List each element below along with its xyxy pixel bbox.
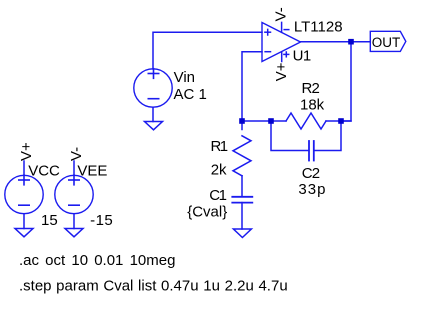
resistor R1 <box>233 136 251 176</box>
V3 minus mark <box>69 204 79 206</box>
wire VCC flag stub <box>23 161 25 175</box>
V2 plus mark <box>19 175 29 185</box>
op-amp -input mark <box>265 51 270 53</box>
svg-text:V+: V+ <box>18 142 35 161</box>
svg-text:{Cval}: {Cval} <box>187 204 227 221</box>
svg-text:C2: C2 <box>302 165 320 182</box>
svg-text:AC 1: AC 1 <box>174 86 207 103</box>
wire op-amp output to OUT flag <box>301 41 371 43</box>
voltage source V2 VCC circle <box>5 175 43 213</box>
svg-text:V-: V- <box>68 147 85 161</box>
ground under VEE <box>65 229 83 237</box>
svg-text:R1: R1 <box>211 138 228 155</box>
op-amp U1 triangle <box>262 23 301 62</box>
svg-text:15: 15 <box>41 212 58 229</box>
svg-text:C1: C1 <box>209 187 226 204</box>
svg-text:VCC: VCC <box>28 163 60 180</box>
svg-text:2k: 2k <box>211 162 227 179</box>
voltage source V3 VEE circle <box>55 175 93 213</box>
svg-text:LT1128: LT1128 <box>294 18 343 35</box>
svg-text:V-: V- <box>272 7 289 21</box>
wire Vin top to op-amp +input <box>153 32 262 69</box>
resistor R2 <box>286 113 326 129</box>
ground under VCC <box>15 229 33 237</box>
svg-text:OUT: OUT <box>372 35 401 50</box>
op-amp V- supply pin <box>281 22 283 32</box>
wire VCC bottom <box>23 214 25 229</box>
op-amp V+ supply pin <box>281 52 283 61</box>
wire C1 to ground <box>241 203 243 229</box>
svg-text:33p: 33p <box>298 181 326 198</box>
svg-text:-15: -15 <box>90 212 113 229</box>
capacitor C1 <box>232 197 252 203</box>
V1 plus mark <box>148 69 158 79</box>
node junction at R2/C2 left <box>268 118 274 124</box>
svg-text:U1: U1 <box>293 48 311 65</box>
wire Vin bottom <box>152 107 154 121</box>
wire C2 right loop <box>314 121 341 151</box>
svg-text:.step param Cval list 0.47u 1u: .step param Cval list 0.47u 1u 2.2u 4.7u <box>19 278 288 295</box>
voltage source V1 Vin circle <box>134 69 172 107</box>
svg-text:Vin: Vin <box>174 69 195 86</box>
wire feedback node to R2 left <box>242 120 286 122</box>
node junction at output <box>348 39 354 45</box>
wire VEE flag stub <box>73 161 75 175</box>
wire VEE bottom <box>73 214 75 229</box>
svg-text:18k: 18k <box>300 97 325 114</box>
wire output down to feedback row <box>341 42 351 121</box>
wire C2 left loop <box>271 121 308 151</box>
svg-text:R2: R2 <box>302 80 320 97</box>
wire R1 to C1 <box>241 176 243 196</box>
op-amp +input mark <box>265 29 271 35</box>
OUT flag outline <box>370 31 406 51</box>
op-amp V- pin minus mark <box>284 29 289 31</box>
wire R2 right to output column <box>326 120 351 122</box>
ground under C1 <box>233 229 251 238</box>
wire R1 top lead <box>241 121 243 130</box>
node junction at feedback/R1 <box>239 118 245 124</box>
op-amp V+ pin plus mark <box>284 52 289 57</box>
V3 plus mark <box>69 175 79 185</box>
V1 minus mark <box>148 98 158 100</box>
V2 minus mark <box>19 204 29 206</box>
svg-text:V+: V+ <box>273 62 290 81</box>
capacitor C2 <box>309 141 314 161</box>
ground under Vin <box>145 122 163 130</box>
node junction at R2/C2 right <box>338 118 344 124</box>
wire op-amp -input to feedback node <box>242 52 262 121</box>
svg-text:VEE: VEE <box>77 163 107 180</box>
svg-text:.ac oct 10 0.01 10meg: .ac oct 10 0.01 10meg <box>19 252 175 269</box>
